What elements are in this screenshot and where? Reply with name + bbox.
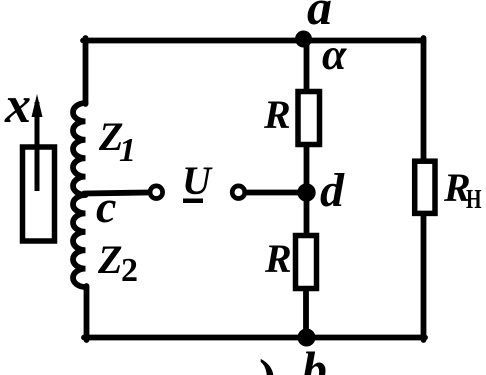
arrow x shaft — [35, 102, 40, 191]
svg-text:2: 2 — [121, 252, 138, 289]
svg-text:Н: Н — [466, 185, 482, 215]
node a — [295, 31, 312, 48]
resistor R1 — [298, 92, 320, 145]
wire terminal to node d — [247, 190, 302, 196]
svg-text:x: x — [4, 77, 31, 134]
terminal circle right — [232, 186, 245, 199]
wire top — [83, 38, 424, 44]
wire tap c — [84, 193, 148, 194]
svg-text:d: d — [320, 164, 345, 217]
inductor Z1 — [73, 103, 86, 195]
svg-text:U: U — [182, 158, 213, 203]
svg-text:c: c — [96, 181, 116, 232]
svg-text:R: R — [264, 236, 292, 281]
svg-text:): ) — [259, 350, 276, 375]
wire bottom — [84, 335, 425, 341]
wire R1 to node d — [304, 145, 310, 194]
wire node a to R1 — [304, 40, 310, 92]
plunger core rectangle — [23, 147, 55, 241]
inductor Z2 — [73, 195, 86, 287]
wire right lower — [421, 214, 427, 340]
svg-text:1: 1 — [119, 132, 136, 169]
node b — [298, 329, 316, 347]
svg-text:α: α — [322, 30, 347, 79]
svg-text:Z: Z — [97, 237, 122, 282]
resistor RH — [415, 161, 435, 213]
wire node d to R2 — [304, 192, 310, 236]
arrow x head — [32, 94, 43, 117]
wire left upper — [83, 38, 89, 104]
svg-text:b: b — [302, 341, 327, 375]
label U underline — [183, 199, 203, 204]
resistor R2 — [296, 236, 317, 289]
terminal circle left — [150, 186, 163, 199]
wire left lower — [84, 286, 90, 340]
node d — [297, 183, 315, 201]
svg-text:R: R — [263, 92, 291, 137]
wire R2 to node b — [303, 289, 309, 340]
wire right upper — [421, 38, 427, 160]
